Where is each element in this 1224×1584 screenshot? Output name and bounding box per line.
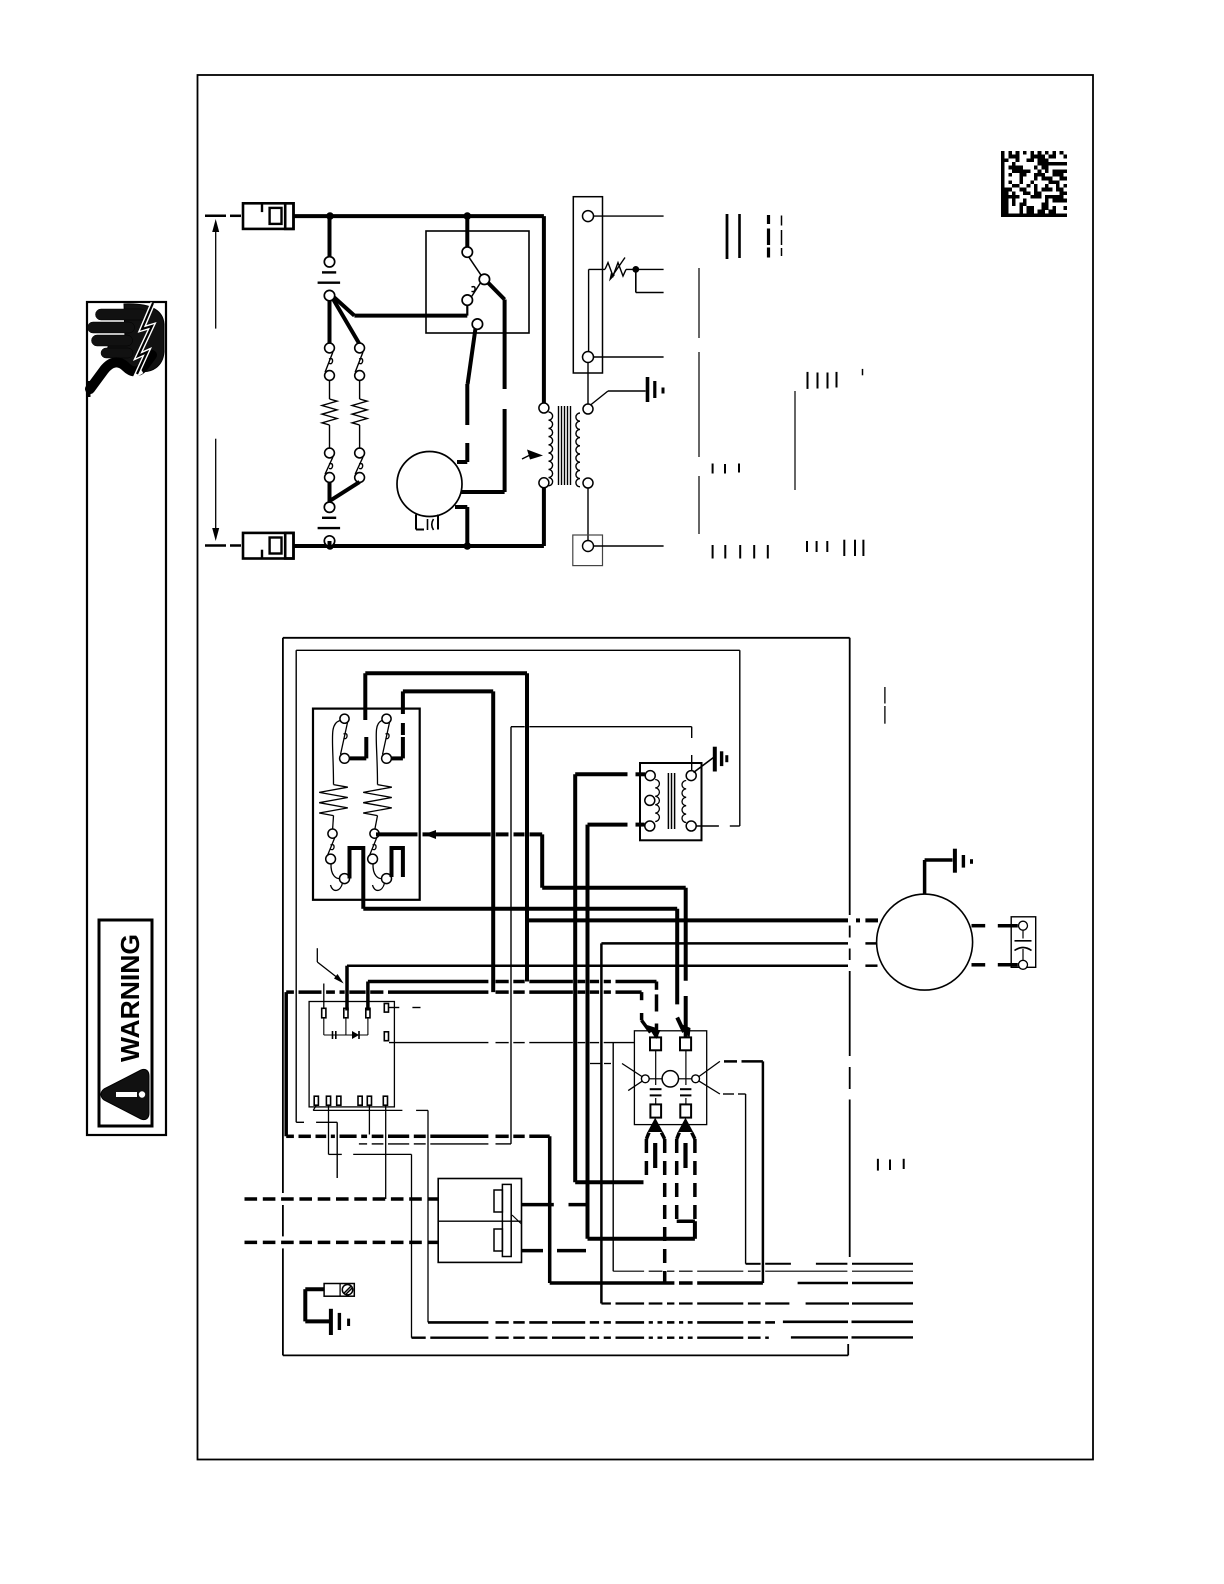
crankcase heater switch xyxy=(324,1284,354,1297)
power line terminal L2 xyxy=(243,533,294,559)
terminal block TB2 xyxy=(573,535,603,566)
warning label outer box xyxy=(87,302,166,1135)
wire motor capacitor top xyxy=(972,924,1018,928)
compressor plug pin left xyxy=(646,1118,664,1283)
wire common 24v xyxy=(359,727,692,1144)
wire CB out4 xyxy=(385,1105,387,1199)
heater bracket top HE1 xyxy=(350,737,366,758)
wire compressor to bottom bus xyxy=(455,507,467,546)
page border frame xyxy=(198,75,1094,1460)
node junction top bus xyxy=(326,212,471,220)
electric shock hazard hand icon xyxy=(88,303,164,397)
overload switch OL2 lower xyxy=(355,448,365,482)
contactor aux contact xyxy=(472,319,482,329)
wire CC coil left xyxy=(590,1064,642,1091)
wire strip terminal R xyxy=(594,215,664,217)
power line terminal L1 xyxy=(243,203,294,229)
wire T2 primary top to plug left xyxy=(575,1180,643,1184)
wire CB top aux xyxy=(323,984,325,1009)
contactor box CONT xyxy=(426,231,529,333)
contactor fixed contact xyxy=(462,295,472,305)
wire into CC left terminal xyxy=(653,1024,661,1040)
label text voltage rating xyxy=(727,214,782,259)
resistor element R-OL1 xyxy=(322,380,337,448)
compressor contactor CC xyxy=(634,1031,706,1125)
breaker upper fuse-link xyxy=(318,216,341,301)
heater element HE1 with limit switches xyxy=(319,714,349,890)
resistor element R-OL2 xyxy=(352,380,367,448)
ground symbol G1 xyxy=(591,377,664,405)
wire CB out2 east xyxy=(412,1336,914,1339)
wire tap branch xyxy=(636,269,664,292)
compressor motor COMP xyxy=(397,452,462,531)
svg-text:WARNING: WARNING xyxy=(115,934,145,1062)
label text group6 xyxy=(878,1159,904,1171)
wire A heater feed xyxy=(365,673,527,981)
wire arrow into CC left terminal xyxy=(642,1020,657,1038)
breaker lower fuse-link xyxy=(318,502,341,546)
label text group3 xyxy=(713,464,739,474)
wire motor capacitor bottom xyxy=(972,963,1018,967)
wire blower line2 xyxy=(601,943,877,1303)
wire bus to contactor xyxy=(465,216,469,247)
wire to CC right straight xyxy=(542,834,686,1037)
run capacitor xyxy=(1011,917,1035,970)
control compartment box xyxy=(283,638,850,1356)
label text group5 xyxy=(884,687,886,724)
wire strip terminal C xyxy=(594,356,664,358)
wire CC coil right east xyxy=(724,1061,763,1283)
contactor contact pivot xyxy=(462,247,472,257)
wire low voltage tail xyxy=(798,1282,913,1284)
warning text box with triangle xyxy=(99,920,152,1126)
overload switch OL2 upper xyxy=(355,343,365,380)
transformer T2 xyxy=(640,763,702,840)
wire TB2 out xyxy=(594,545,664,547)
wire blower line2 east xyxy=(601,1302,913,1304)
wire plug top xyxy=(522,1203,588,1207)
wire B heater feed xyxy=(403,691,493,992)
wire heater bottom to CC right xyxy=(363,909,677,1005)
wire breaker fanout xyxy=(330,299,360,344)
wire crankcase ground xyxy=(305,1289,329,1321)
wire CC coil right lower east xyxy=(723,1094,913,1264)
label text group2 xyxy=(808,369,863,389)
wire label leader upper xyxy=(698,268,700,534)
compressor plug pin right xyxy=(677,1118,695,1221)
wire contactor to compressor run xyxy=(461,283,505,492)
wire blower line3 xyxy=(347,966,878,1011)
wire CB to CC coil bus xyxy=(368,982,657,1012)
heater bracket top HE2 xyxy=(392,737,403,758)
contactor blade xyxy=(472,283,481,297)
overload switch OL1 lower xyxy=(325,448,335,482)
data matrix barcode xyxy=(1001,151,1067,217)
wire CB out1 east xyxy=(428,1321,913,1324)
heater bracket bottom xyxy=(350,848,364,909)
wire T2 primary top xyxy=(575,774,645,1182)
wire CB aux east xyxy=(613,1270,913,1272)
ground symbol G3 xyxy=(331,1309,349,1335)
ground symbol G4 xyxy=(925,849,972,894)
wire dashed field line1 xyxy=(245,1197,439,1201)
wire strip internal xyxy=(588,269,590,351)
heater bracket bottom HE2 xyxy=(392,848,403,877)
wire breaker lower merge xyxy=(330,482,360,502)
dimension arrows between line terminals xyxy=(205,216,241,546)
wire low route xyxy=(286,1136,763,1283)
node junction bottom bus xyxy=(326,542,471,550)
wire heater HE2 out xyxy=(376,830,542,839)
contactor moving contact xyxy=(469,257,490,284)
wire CB right terminal1 xyxy=(389,1007,421,1009)
defrost control board CB xyxy=(309,1002,394,1107)
transformer T1 primary and secondary xyxy=(539,403,593,488)
wire R feed xyxy=(286,992,641,1136)
wire T2 secondary top xyxy=(691,727,693,771)
wire blower line1 xyxy=(527,918,878,922)
wire CB out3 xyxy=(368,1105,370,1134)
wire label leader lower xyxy=(794,391,796,490)
compressor plug receptacle xyxy=(438,1179,521,1263)
wire top bus L1 xyxy=(294,216,544,403)
wire node to contact xyxy=(334,298,467,316)
wire CB out1 xyxy=(313,1105,428,1322)
wire arrow into CC right terminal xyxy=(677,1018,690,1039)
wire CC coil right xyxy=(699,1061,720,1094)
wire T2 primary bottom xyxy=(588,825,645,1239)
label text group4 xyxy=(713,540,864,559)
wire strip to T1 secondary xyxy=(587,363,589,405)
wire aux to compressor start xyxy=(457,329,475,462)
wire T2 secondary bottom loop xyxy=(296,650,740,826)
wire secondary loop down xyxy=(296,650,337,1178)
heater element HE2 with limit switches xyxy=(363,714,392,890)
wire CB right terminal2 to CC xyxy=(389,1043,634,1272)
wire T2 primary bottom to plug right xyxy=(588,1221,695,1239)
wire dashed field line2 xyxy=(245,1241,439,1245)
electric heater box xyxy=(313,709,420,900)
wire bottom bus L2 xyxy=(294,488,544,547)
thermistor anticipator xyxy=(589,258,664,282)
wire CB out2 xyxy=(329,1105,412,1338)
callout arrow to CB wire xyxy=(317,948,343,983)
wire plug bottom xyxy=(522,1249,587,1253)
ground symbol G2 xyxy=(694,747,727,773)
wire T1 secondary to terminal xyxy=(587,488,589,541)
transformer T1 tap arrow xyxy=(522,450,543,460)
low-voltage terminal strip xyxy=(573,197,602,373)
blower motor BM xyxy=(877,894,973,990)
overload switch OL1 upper xyxy=(325,343,335,380)
